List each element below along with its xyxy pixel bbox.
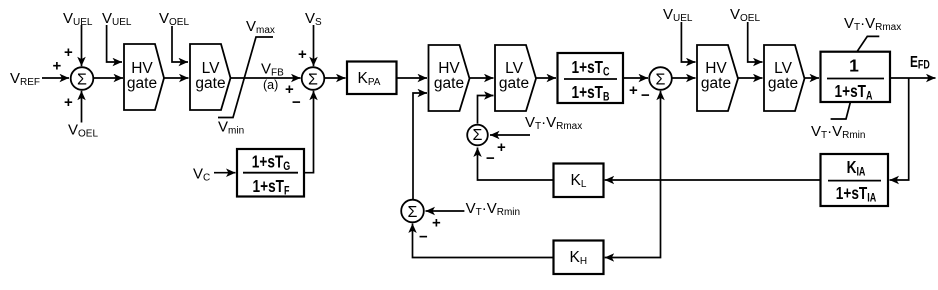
svg-text:gate: gate [701, 75, 731, 92]
wire KPA to HV gate 2 [397, 77, 428, 79]
svg-text:−: − [419, 229, 428, 246]
node Vmax label [246, 18, 275, 36]
wire S1 to HV gate 1 [94, 77, 124, 79]
node VREF label [10, 70, 40, 88]
node VUEL label (into HV gate 1) [102, 10, 132, 28]
svg-text:Σ: Σ [656, 72, 666, 89]
wire VUEL into S1 top with plus [64, 25, 82, 66]
summing junction S2 [302, 67, 325, 90]
wire VUEL into HV gate 1 [107, 25, 122, 62]
svg-text:+: + [298, 46, 307, 63]
wire VS into S2 top with plus [298, 25, 314, 66]
wire EFD branch down to KIA block [890, 78, 909, 180]
wire S2 to KPA block [325, 77, 346, 79]
wire HV gate 1 to LV gate 1 [164, 77, 189, 79]
limit callout VT.VRmax on regulator block [844, 15, 901, 52]
wire regulator block to EFD output [890, 77, 936, 79]
node VUEL label (into S1) [63, 10, 93, 28]
svg-text:+: + [64, 94, 73, 111]
wire lower summer SL up into HV gate 2 second input [413, 93, 427, 200]
svg-text:+: + [64, 44, 73, 61]
LV gate 2 [495, 45, 536, 111]
block (1+sTC)/(1+sTB) [558, 53, 624, 104]
svg-text:Σ: Σ [308, 72, 318, 89]
wire VOEL into S1 bottom with plus [64, 91, 82, 123]
plus sign at S2 left input [285, 81, 294, 98]
wire KIA output to KL input (with junction to S3 and KH) [605, 179, 821, 181]
svg-text:−: − [486, 150, 495, 167]
HV gate 1 [124, 44, 164, 110]
svg-text:−: − [292, 94, 301, 111]
node VOEL label (into LV gate 1) [159, 10, 189, 28]
wire feedback up into S3 bottom [660, 91, 662, 180]
limit callout VT.VRmin on regulator block [811, 102, 865, 141]
svg-text:gate: gate [195, 75, 225, 92]
block KIA/(1+sTIA) [821, 154, 889, 206]
limiter slash Vmax/Vmin [218, 37, 273, 118]
node VC label [193, 166, 210, 184]
svg-text:Σ: Σ [77, 72, 87, 89]
minus sign at S2 bottom input [292, 94, 301, 111]
svg-text:gate: gate [499, 75, 529, 92]
svg-text:+: + [629, 82, 638, 99]
wire VC block output up into S2 bottom [304, 91, 314, 173]
node VFB label [261, 61, 284, 79]
wire junction down to KH [605, 180, 661, 258]
summing junction SL [401, 200, 424, 223]
node VT.VRmin label (into SL) [466, 200, 520, 218]
block KL [554, 164, 604, 198]
wire LV gate 1 to summer S2 [231, 77, 301, 79]
node (a) label [263, 78, 278, 92]
wire S3 to HV gate 3 [672, 77, 696, 79]
svg-text:gate: gate [768, 75, 798, 92]
wire HV gate 2 to LV gate 2 [470, 77, 494, 79]
svg-text:1+sTF: 1+sTF [253, 178, 290, 198]
svg-text:−: − [641, 87, 650, 104]
block 1/(1+sTA) [821, 52, 891, 103]
wire LV gate 2 to lead-lag block [536, 77, 556, 79]
node Vmin label [218, 119, 244, 137]
wire VOEL into LV gate 3 [748, 22, 763, 62]
wire VC into washout block [214, 172, 236, 174]
node VUEL label (into HV gate 3) [663, 6, 693, 24]
wire VUEL into HV gate 3 [681, 22, 695, 62]
svg-text:+: + [432, 215, 441, 232]
svg-text:(a): (a) [263, 78, 278, 92]
node VOEL label (into LV gate 3) [730, 6, 760, 24]
svg-text:Σ: Σ [473, 127, 483, 144]
svg-text:gate: gate [434, 75, 464, 92]
wire lead-lag block to summer S3 with plus [623, 78, 648, 99]
summing junction SM [467, 125, 488, 146]
LV gate 1 [190, 44, 231, 110]
wire VREF into summer S1 with plus [42, 58, 69, 79]
block KH [554, 241, 604, 275]
node VT.VRmax label (into SM) [525, 114, 582, 132]
wire LV gate 3 to regulator block [805, 77, 820, 79]
LV gate 3 [764, 45, 805, 111]
wire middle summer SM up into LV gate 2 second input [478, 96, 494, 124]
svg-text:Σ: Σ [408, 204, 418, 221]
minus sign at S3 bottom input [641, 87, 650, 104]
node VS label [305, 10, 322, 28]
svg-text:+: + [53, 58, 62, 75]
minus sign at SL bottom input [419, 229, 428, 246]
node EFD label [910, 52, 930, 72]
summing junction S3 [649, 67, 672, 90]
HV gate 3 [697, 45, 738, 111]
svg-text:1: 1 [849, 56, 859, 76]
wire VT.VRmin into SL with plus [426, 211, 465, 232]
svg-text:gate: gate [127, 75, 157, 92]
block (1+sTG)/(1+sTF) [237, 149, 304, 198]
wire VT.VRmax into SM with plus [490, 135, 530, 156]
svg-text:+: + [497, 139, 506, 156]
summing junction S1 [71, 67, 94, 90]
wire HV gate 3 to LV gate 3 [738, 77, 763, 79]
wire KH output to lower summer SL bottom [413, 224, 554, 258]
node VOEL label (into S1) [68, 122, 98, 140]
wire VOEL into LV gate 1 [172, 26, 188, 62]
block KPA [347, 62, 397, 95]
wire KL output to middle summer SM bottom [478, 148, 554, 181]
HV gate 2 [429, 45, 470, 111]
minus sign at SM bottom input [486, 150, 495, 167]
